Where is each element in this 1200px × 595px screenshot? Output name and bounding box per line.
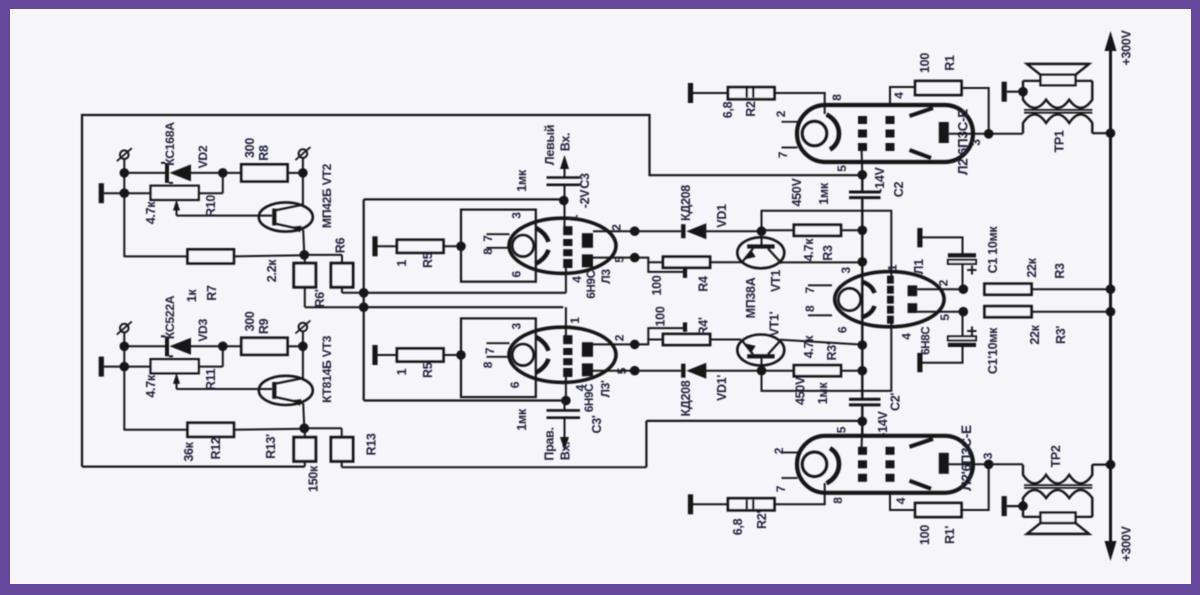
svg-text:7: 7 xyxy=(483,347,497,354)
svg-text:R3: R3 xyxy=(1053,263,1067,279)
svg-text:8: 8 xyxy=(481,248,495,255)
svg-text:КД208: КД208 xyxy=(679,185,693,221)
svg-text:2: 2 xyxy=(772,447,786,454)
svg-text:8: 8 xyxy=(831,497,845,504)
svg-text:5: 5 xyxy=(938,314,952,321)
svg-text:МП42Б VT2: МП42Б VT2 xyxy=(320,163,334,228)
svg-text:2: 2 xyxy=(613,334,627,341)
svg-text:VD2: VD2 xyxy=(196,145,210,168)
svg-text:4: 4 xyxy=(892,92,906,99)
svg-text:8: 8 xyxy=(481,361,495,368)
svg-text:4: 4 xyxy=(570,276,584,283)
svg-text:C1 10мк: C1 10мк xyxy=(986,226,1000,274)
svg-text:МП38А: МП38А xyxy=(744,277,758,318)
svg-text:R3': R3' xyxy=(1054,326,1068,344)
svg-text:3: 3 xyxy=(969,139,983,146)
svg-text:4: 4 xyxy=(900,333,914,340)
svg-text:300: 300 xyxy=(243,311,257,331)
svg-text:3: 3 xyxy=(509,212,523,219)
svg-text:ТР1: ТР1 xyxy=(1053,130,1067,152)
svg-text:Л1: Л1 xyxy=(912,259,926,274)
svg-text:VT1: VT1 xyxy=(769,270,783,292)
svg-text:C1'10мк: C1'10мк xyxy=(986,327,1000,374)
svg-text:4: 4 xyxy=(894,497,908,504)
svg-text:+300V: +300V xyxy=(1120,30,1134,66)
svg-text:1мк: 1мк xyxy=(816,382,830,405)
svg-text:6Н9С: 6Н9С xyxy=(584,384,596,412)
svg-text:С3: С3 xyxy=(578,173,592,189)
svg-text:R12: R12 xyxy=(209,437,223,459)
svg-text:+: + xyxy=(962,326,982,337)
svg-text:VD1: VD1 xyxy=(715,204,729,228)
svg-text:R5': R5' xyxy=(421,360,435,378)
svg-text:C2': C2' xyxy=(889,393,903,411)
svg-text:R13': R13' xyxy=(264,434,278,459)
svg-text:R9: R9 xyxy=(257,318,271,334)
svg-text:R11: R11 xyxy=(204,368,218,390)
svg-text:5: 5 xyxy=(835,165,849,172)
svg-text:+300V: +300V xyxy=(1120,526,1134,562)
svg-text:6,8: 6,8 xyxy=(721,101,735,118)
svg-text:2.2к: 2.2к xyxy=(265,259,279,282)
svg-text:2: 2 xyxy=(774,110,788,117)
svg-text:-2V: -2V xyxy=(578,189,592,209)
svg-text:1мк: 1мк xyxy=(817,182,831,205)
svg-text:1: 1 xyxy=(568,317,582,324)
svg-text:100: 100 xyxy=(650,275,664,295)
svg-text:Прав.: Прав. xyxy=(543,427,557,460)
svg-text:Вх.: Вх. xyxy=(559,442,573,460)
svg-text:2: 2 xyxy=(610,224,624,231)
svg-text:R5: R5 xyxy=(421,252,435,268)
svg-text:6: 6 xyxy=(508,381,522,388)
svg-text:7: 7 xyxy=(774,485,788,492)
svg-text:+: + xyxy=(962,265,982,276)
svg-text:4.7к: 4.7к xyxy=(144,374,158,397)
svg-text:8: 8 xyxy=(830,94,844,101)
svg-text:150к: 150к xyxy=(307,465,321,492)
svg-text:1мк: 1мк xyxy=(515,408,529,431)
svg-text:7: 7 xyxy=(776,151,790,158)
svg-text:VD1': VD1' xyxy=(715,375,729,401)
svg-text:R1': R1' xyxy=(943,526,957,544)
svg-text:R6: R6 xyxy=(334,237,348,253)
svg-text:7: 7 xyxy=(481,235,495,242)
svg-text:R1: R1 xyxy=(943,55,957,71)
svg-text:C2: C2 xyxy=(892,181,906,197)
svg-text:3: 3 xyxy=(839,266,853,273)
svg-text:ТР2: ТР2 xyxy=(1049,445,1063,467)
svg-text:450V: 450V xyxy=(794,376,808,405)
svg-text:R2': R2' xyxy=(755,511,769,529)
svg-text:Вх.: Вх. xyxy=(559,133,573,151)
svg-text:8: 8 xyxy=(803,305,817,312)
svg-text:450V: 450V xyxy=(790,178,804,207)
svg-text:4.7к: 4.7к xyxy=(802,335,816,358)
svg-text:КС168А: КС168А xyxy=(163,122,177,166)
svg-text:2: 2 xyxy=(937,279,951,286)
svg-text:6: 6 xyxy=(836,326,850,333)
svg-text:7: 7 xyxy=(803,286,817,293)
svg-text:R6': R6' xyxy=(313,289,327,307)
svg-text:6: 6 xyxy=(509,270,523,277)
svg-text:6,8: 6,8 xyxy=(731,518,745,535)
svg-text:-14V: -14V xyxy=(873,166,887,192)
svg-text:100: 100 xyxy=(654,306,668,326)
svg-text:Л3: Л3 xyxy=(599,269,613,284)
svg-text:22к: 22к xyxy=(1025,257,1039,277)
svg-text:КТ814Б VT3: КТ814Б VT3 xyxy=(320,335,334,403)
svg-text:R2: R2 xyxy=(744,101,758,117)
svg-text:R8: R8 xyxy=(257,145,271,161)
svg-text:R10: R10 xyxy=(204,195,218,217)
svg-text:-14V: -14V xyxy=(876,410,890,436)
svg-text:VD3: VD3 xyxy=(196,318,210,341)
svg-text:100: 100 xyxy=(918,53,932,73)
svg-text:КС522А: КС522А xyxy=(163,295,177,339)
svg-text:1к: 1к xyxy=(185,289,199,303)
svg-text:R4: R4 xyxy=(697,276,711,292)
svg-text:Л2'6П3С-Е: Л2'6П3С-Е xyxy=(959,425,974,491)
svg-text:1: 1 xyxy=(567,214,581,221)
svg-text:VT1': VT1' xyxy=(768,311,782,336)
svg-text:3: 3 xyxy=(981,452,995,459)
svg-text:R4': R4' xyxy=(697,317,711,335)
svg-text:4.7к: 4.7к xyxy=(802,238,816,261)
svg-text:300: 300 xyxy=(243,138,257,158)
svg-text:5: 5 xyxy=(835,426,849,433)
svg-text:Левый: Левый xyxy=(543,125,557,165)
svg-text:3: 3 xyxy=(510,322,524,329)
svg-text:R13: R13 xyxy=(365,433,379,455)
svg-text:Л3': Л3' xyxy=(598,380,612,397)
svg-text:КД208: КД208 xyxy=(679,380,693,416)
svg-text:Л2 6П3С-Е: Л2 6П3С-Е xyxy=(956,109,971,175)
svg-text:1: 1 xyxy=(395,368,409,375)
svg-text:С3': С3' xyxy=(590,415,604,433)
svg-text:1: 1 xyxy=(395,260,409,267)
svg-text:100: 100 xyxy=(918,525,932,545)
svg-text:6Н9С: 6Н9С xyxy=(586,270,598,298)
svg-text:4.7к: 4.7к xyxy=(144,201,158,224)
svg-text:22к: 22к xyxy=(1028,324,1042,344)
svg-text:R3: R3 xyxy=(821,245,835,261)
svg-text:R7: R7 xyxy=(205,285,219,301)
svg-text:1: 1 xyxy=(886,264,900,271)
svg-text:36к: 36к xyxy=(182,441,196,461)
svg-text:R3': R3' xyxy=(825,342,839,360)
svg-text:1мк: 1мк xyxy=(515,169,529,192)
svg-text:6Н8С: 6Н8С xyxy=(921,327,933,355)
